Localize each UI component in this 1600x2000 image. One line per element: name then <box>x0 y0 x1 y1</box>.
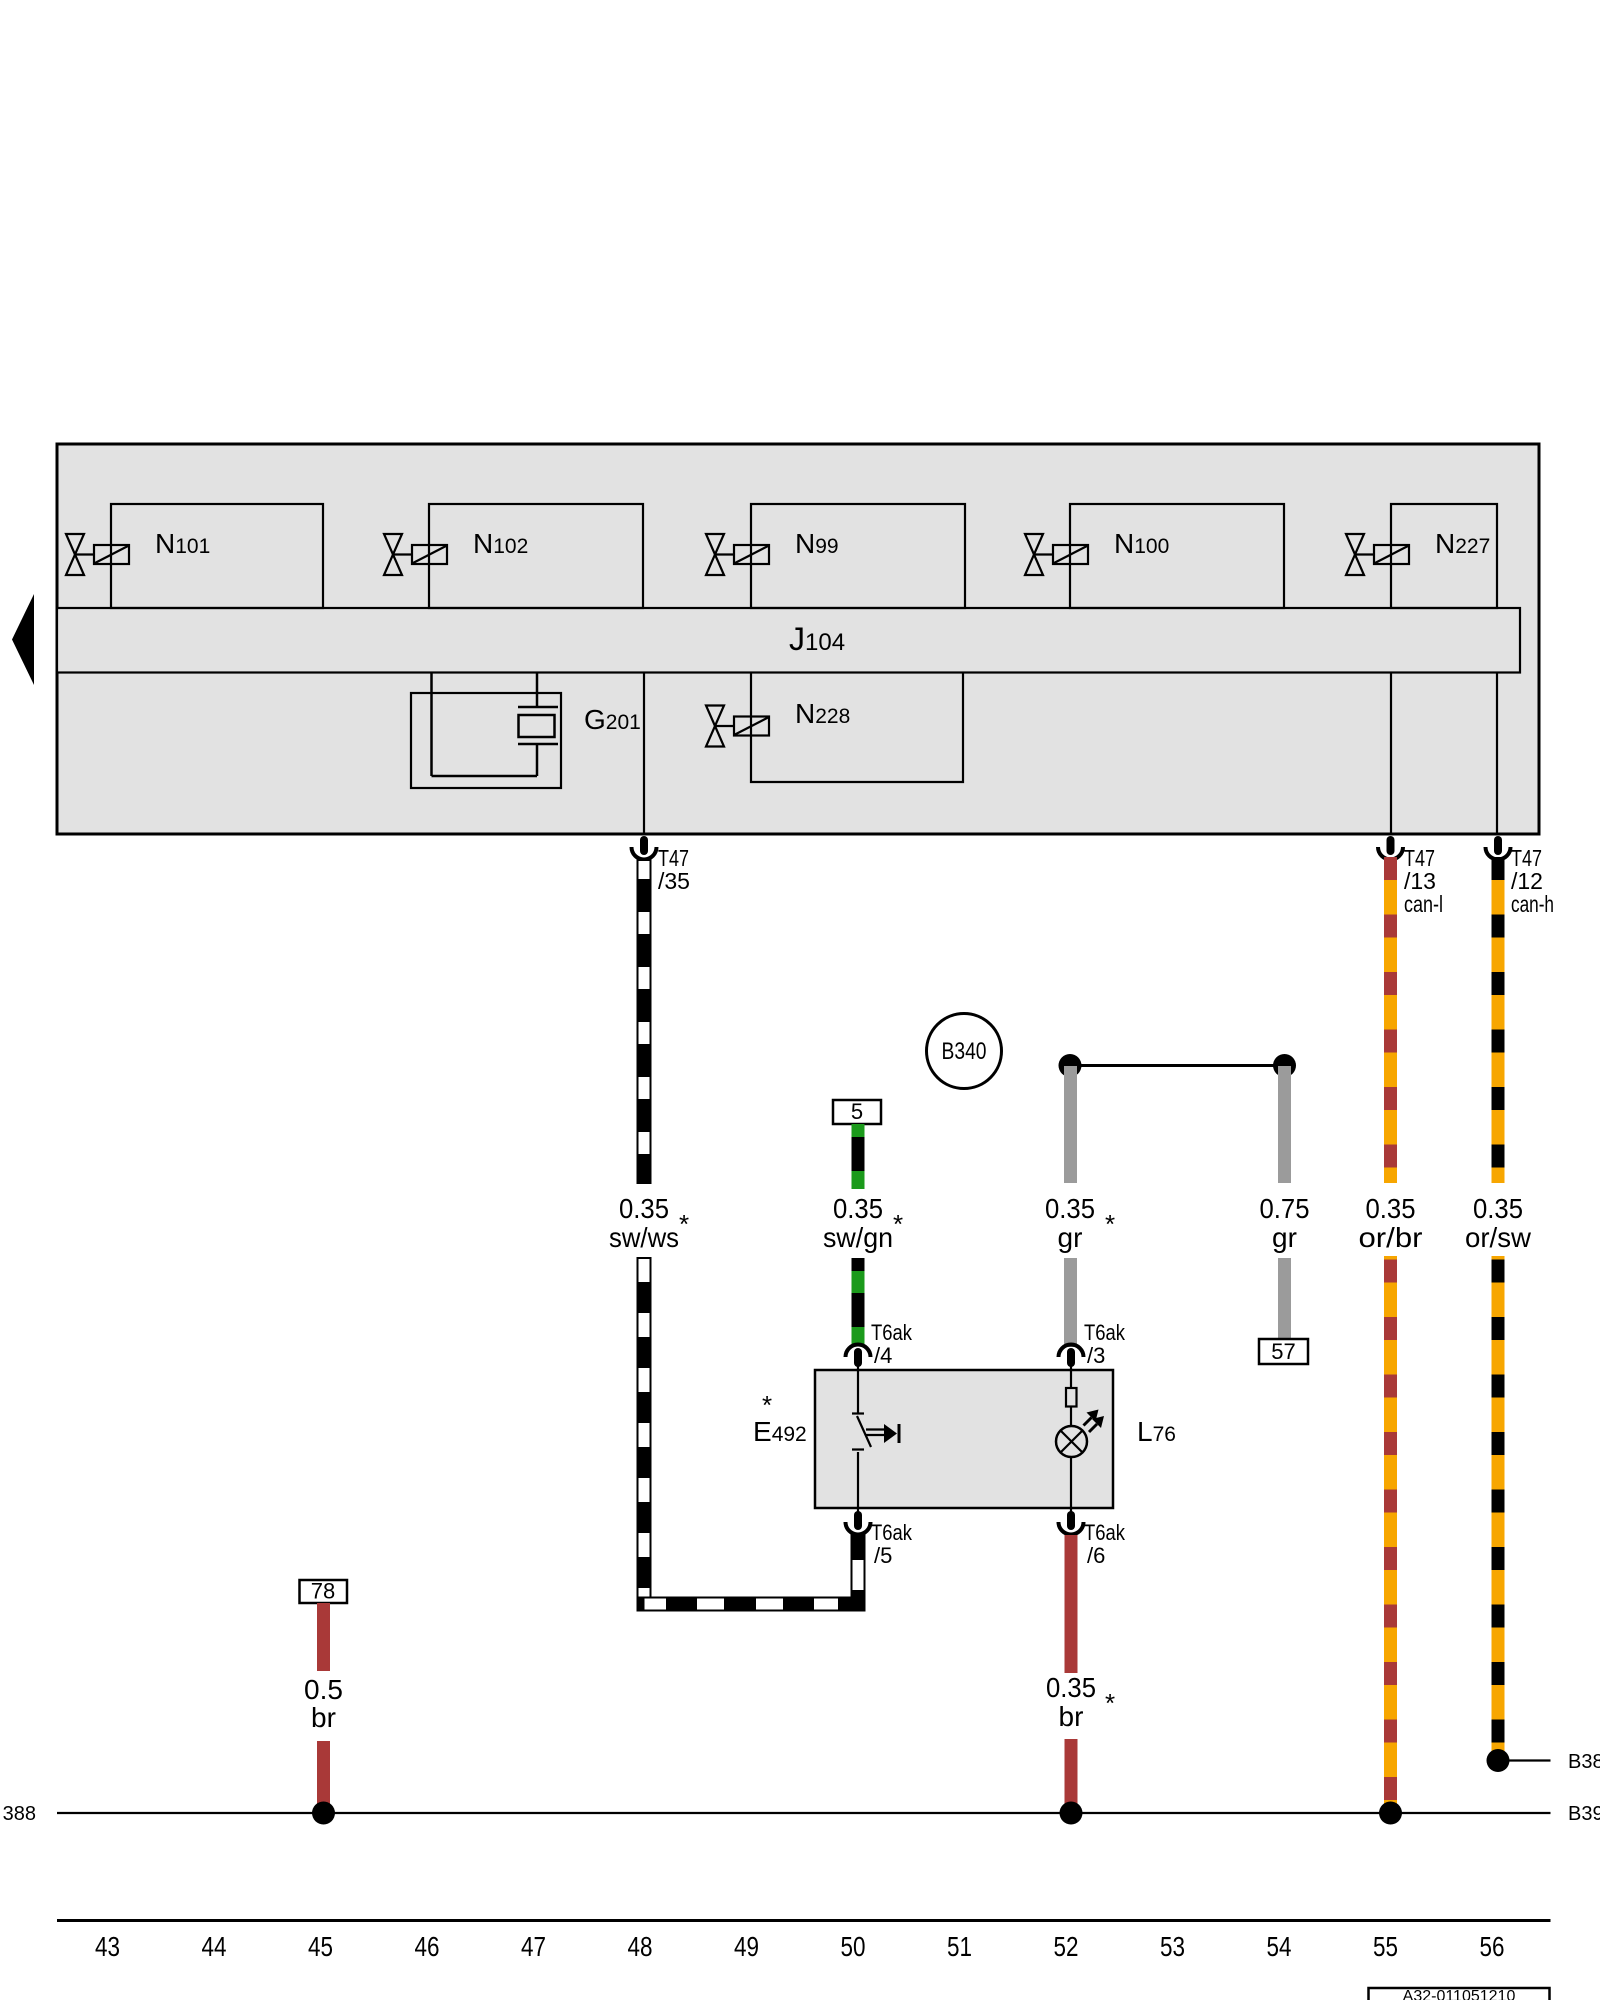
wire N227 left edge down to T47/13 <box>1390 673 1392 835</box>
wire sw/gn lower segment <box>852 1258 865 1346</box>
svg-text:/5: /5 <box>874 1543 892 1568</box>
J104 bus band <box>57 608 1520 673</box>
svg-text:51: 51 <box>947 1931 972 1962</box>
valve N228 box <box>751 673 963 783</box>
wire inside box to T47/35 <box>643 673 645 835</box>
svg-text:/4: /4 <box>874 1343 892 1368</box>
diagram number box A32-011051210 <box>1369 1988 1550 2000</box>
direction arrow (left, pointing left) <box>12 594 34 685</box>
grid numbers <box>95 1931 1505 1962</box>
connector T6ak/6 <box>1059 1508 1126 1568</box>
connector T6ak/4 <box>846 1320 913 1371</box>
valve symbol N100 <box>1025 534 1088 575</box>
node dot br0.5/388 <box>312 1802 335 1825</box>
connector B340 circle <box>927 1014 1002 1089</box>
svg-text:56: 56 <box>1480 1931 1505 1962</box>
switch arrow head <box>884 1424 897 1443</box>
wire sw/ws horizontal elbow <box>638 1598 865 1611</box>
svg-text:A32-011051210: A32-011051210 <box>1403 1988 1516 2000</box>
terminal T47/35 <box>632 836 690 894</box>
svg-text:can-l: can-l <box>1404 891 1443 917</box>
svg-text:br: br <box>311 1702 336 1733</box>
terminal 57 box <box>1259 1339 1308 1364</box>
svg-text:0.35: 0.35 <box>1473 1193 1523 1224</box>
wire to B383 <box>1498 1759 1551 1761</box>
svg-text:/35: /35 <box>658 868 690 894</box>
svg-text:50: 50 <box>841 1931 866 1962</box>
ground wire 388 <box>57 1812 1551 1814</box>
svg-text:0.35: 0.35 <box>1046 1672 1096 1703</box>
valve symbol N101 <box>66 534 129 575</box>
svg-text:44: 44 <box>202 1931 227 1962</box>
wire N227 right edge down to T47/12 <box>1496 673 1498 835</box>
svg-text:or/sw: or/sw <box>1465 1222 1532 1253</box>
svg-text:53: 53 <box>1160 1931 1185 1962</box>
grid scale line <box>57 1919 1551 1922</box>
svg-text:46: 46 <box>415 1931 440 1962</box>
svg-text:0.35: 0.35 <box>619 1193 669 1224</box>
wire br (0.5) lower segment <box>317 1741 330 1813</box>
node dot or-sw/B383 <box>1487 1749 1510 1772</box>
svg-text:or/br: or/br <box>1359 1222 1423 1253</box>
valve N227 box <box>1391 504 1497 608</box>
valve N101 box <box>111 504 323 608</box>
svg-text:*: * <box>1105 1688 1115 1718</box>
connector T6ak/3 <box>1059 1320 1126 1371</box>
valve symbol N99 <box>706 534 769 575</box>
svg-text:0.35: 0.35 <box>833 1193 883 1224</box>
svg-text:B390: B390 <box>1568 1803 1600 1825</box>
valve N100 box <box>1070 504 1284 608</box>
wire br (0.35) upper segment <box>1065 1535 1078 1673</box>
terminal T47/13 <box>1378 836 1443 917</box>
svg-text:sw/ws: sw/ws <box>609 1222 679 1253</box>
switch/lamp unit E492 L76 box <box>815 1370 1113 1508</box>
wire gr (0.35) lower segment <box>1064 1258 1077 1347</box>
svg-text:388: 388 <box>3 1803 36 1825</box>
svg-text:gr: gr <box>1272 1222 1297 1253</box>
terminal 5 box <box>833 1100 881 1124</box>
svg-text:55: 55 <box>1373 1931 1398 1962</box>
wire sw/ws upper segment <box>638 860 651 1183</box>
wire or/br upper segment <box>1384 857 1397 1183</box>
svg-text:can-h: can-h <box>1511 891 1554 917</box>
wire gr (0.75) lower segment <box>1278 1258 1291 1339</box>
valve symbol N227 <box>1346 534 1409 575</box>
svg-text:0.35: 0.35 <box>1366 1193 1416 1224</box>
svg-text:/3: /3 <box>1087 1343 1105 1368</box>
wire br (0.5) upper segment <box>317 1603 330 1671</box>
svg-text:0.35: 0.35 <box>1045 1193 1095 1224</box>
lamp arrow heads <box>1087 1410 1099 1422</box>
wire or/sw lower segment <box>1492 1256 1505 1760</box>
svg-text:T6ak: T6ak <box>1084 1320 1126 1345</box>
svg-text:52: 52 <box>1054 1931 1079 1962</box>
wire sw/ws riser to T6ak/5 <box>852 1534 865 1598</box>
wire gr (0.75) upper segment <box>1278 1066 1291 1183</box>
svg-text:T6ak: T6ak <box>871 1320 913 1345</box>
valve symbol N102 <box>384 534 447 575</box>
node: junction dot right (gr) <box>1273 1054 1296 1077</box>
svg-text:0.5: 0.5 <box>304 1674 343 1705</box>
wire sw/gn upper segment <box>852 1124 865 1189</box>
valve symbol N228 <box>706 706 769 747</box>
node: junction dot left (gr) <box>1059 1054 1082 1077</box>
svg-text:48: 48 <box>628 1931 653 1962</box>
svg-text:78: 78 <box>311 1579 335 1604</box>
svg-text:sw/gn: sw/gn <box>823 1222 893 1253</box>
control unit J104 outer box <box>57 444 1539 834</box>
svg-text:gr: gr <box>1058 1222 1083 1253</box>
svg-text:B340: B340 <box>942 1038 987 1065</box>
svg-text:5: 5 <box>851 1099 863 1124</box>
lamp L76 symbol <box>1056 1370 1097 1508</box>
wire or/sw upper segment <box>1492 857 1505 1183</box>
switch E492 symbol <box>852 1370 899 1508</box>
svg-text:57: 57 <box>1271 1339 1295 1364</box>
svg-text:47: 47 <box>521 1931 546 1962</box>
svg-text:B383: B383 <box>1568 1751 1600 1773</box>
terminal 78 box <box>300 1580 348 1603</box>
wire br (0.35) lower segment <box>1065 1739 1078 1813</box>
svg-text:45: 45 <box>308 1931 333 1962</box>
wire sw/ws lower segment <box>638 1258 651 1611</box>
valve N102 box <box>429 504 643 608</box>
node dot br0.35/388 <box>1060 1802 1083 1825</box>
svg-text:*: * <box>1105 1209 1115 1239</box>
svg-text:br: br <box>1059 1701 1084 1732</box>
wire link between junction dots <box>1070 1064 1285 1067</box>
svg-text:0.75: 0.75 <box>1260 1193 1310 1224</box>
wire or/br lower segment <box>1384 1256 1397 1813</box>
node dot or-br/388 <box>1379 1802 1402 1825</box>
svg-text:54: 54 <box>1267 1931 1292 1962</box>
G201 crystal element <box>432 673 559 777</box>
connector T6ak/5 <box>846 1508 913 1568</box>
svg-text:/6: /6 <box>1087 1543 1105 1568</box>
svg-text:43: 43 <box>95 1931 120 1962</box>
svg-text:T6ak: T6ak <box>871 1520 913 1545</box>
svg-text:*: * <box>893 1209 903 1239</box>
wire gr (0.35) upper segment <box>1064 1066 1077 1183</box>
sensor G201 box <box>411 693 561 788</box>
svg-text:T6ak: T6ak <box>1084 1520 1126 1545</box>
svg-text:49: 49 <box>734 1931 759 1962</box>
valve N99 box <box>751 504 965 608</box>
terminal T47/12 <box>1486 836 1555 917</box>
svg-text:*: * <box>679 1209 689 1239</box>
